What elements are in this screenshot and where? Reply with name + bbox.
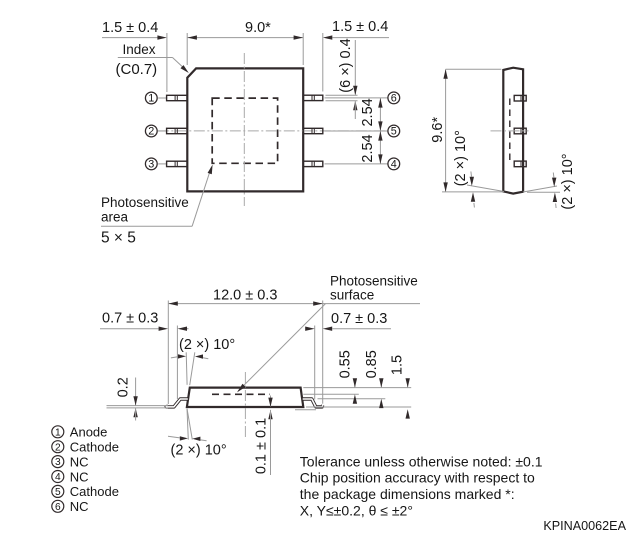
- svg-text:NC: NC: [70, 454, 89, 469]
- chip dashed line: [212, 393, 270, 395]
- svg-text:Cathode: Cathode: [70, 484, 119, 499]
- package body side view: [503, 68, 523, 194]
- svg-text:9.6*: 9.6*: [430, 117, 446, 143]
- pin 6: [325, 97, 388, 99]
- dim 0.55: [354, 380, 356, 387]
- svg-text:1.5 ± 0.4: 1.5 ± 0.4: [102, 20, 158, 36]
- pin 1: [158, 97, 166, 99]
- svg-text:3: 3: [148, 158, 154, 170]
- svg-text:5 × 5: 5 × 5: [101, 230, 136, 247]
- horizontal center line: [158, 130, 388, 132]
- svg-text:2.54: 2.54: [360, 134, 376, 162]
- side view dashed chip line: [509, 99, 511, 165]
- side view pin tab 3: [514, 161, 526, 167]
- photosensitive area dashed square: [212, 98, 277, 163]
- circled pin number 6: [388, 92, 400, 104]
- right side extension lines: [303, 387, 411, 389]
- dim 0.2: [107, 405, 169, 407]
- pin list 1 Anode: [52, 426, 64, 438]
- left lead: [166, 399, 188, 407]
- pin list 6 NC: [52, 500, 64, 512]
- svg-text:surface: surface: [330, 288, 374, 303]
- dim 1.5: [407, 380, 409, 387]
- svg-text:Photosensitive: Photosensitive: [330, 274, 418, 289]
- svg-text:5: 5: [391, 126, 397, 138]
- vertical center line: [243, 53, 245, 206]
- svg-text:1.5: 1.5: [390, 355, 406, 375]
- svg-text:3: 3: [55, 457, 61, 468]
- dim 0.1±0.1: [270, 396, 272, 407]
- svg-text:(2 ×) 10°: (2 ×) 10°: [179, 337, 235, 353]
- circled pin number 5: [388, 125, 400, 137]
- svg-text:0.85: 0.85: [364, 350, 380, 378]
- extension lines verticals: [167, 301, 169, 405]
- circled pin number 1: [145, 92, 157, 104]
- svg-text:(6 ×) 0.4: (6 ×) 0.4: [338, 38, 354, 92]
- svg-text:0.7 ± 0.3: 0.7 ± 0.3: [102, 311, 158, 327]
- svg-text:Tolerance unless otherwise not: Tolerance unless otherwise noted: ±0.1: [300, 453, 543, 469]
- svg-text:(2 ×) 10°: (2 ×) 10°: [560, 153, 576, 209]
- svg-text:Photosensitive: Photosensitive: [101, 195, 189, 210]
- circled pin number 2: [145, 125, 157, 137]
- svg-text:1.5 ± 0.4: 1.5 ± 0.4: [332, 19, 388, 35]
- pin 5: [325, 130, 388, 132]
- circled pin number 3: [145, 158, 157, 170]
- svg-text:0.1 ± 0.1: 0.1 ± 0.1: [254, 418, 270, 474]
- side view horizontal center line: [491, 130, 529, 132]
- side view pin tab 1: [514, 95, 526, 101]
- svg-text:NC: NC: [70, 499, 89, 514]
- svg-text:4: 4: [55, 472, 61, 483]
- dim 2.54 x2: [379, 98, 381, 164]
- pin list 3 NC: [52, 456, 64, 468]
- svg-text:5: 5: [55, 487, 61, 498]
- svg-text:2: 2: [55, 442, 61, 453]
- package body top view: [187, 68, 303, 191]
- pin 2: [158, 130, 166, 132]
- pin list 5 Cathode: [52, 485, 64, 497]
- svg-text:Anode: Anode: [70, 425, 108, 440]
- svg-text:area: area: [101, 210, 129, 225]
- angle (2x)10 top: [185, 352, 188, 385]
- svg-text:2.54: 2.54: [360, 98, 376, 126]
- svg-text:NC: NC: [70, 469, 89, 484]
- package body bottom/profile view: [187, 388, 303, 407]
- svg-text:6: 6: [391, 92, 397, 104]
- dim 9.6*: [445, 69, 447, 192]
- pin list 4 NC: [52, 471, 64, 483]
- dim 0.85: [380, 380, 382, 387]
- svg-text:12.0 ± 0.3: 12.0 ± 0.3: [213, 288, 277, 304]
- angle 10 deg left: [467, 185, 504, 192]
- vertical center line: [244, 372, 246, 438]
- pin 4: [325, 163, 388, 165]
- svg-text:the package dimensions marked: the package dimensions marked *:: [300, 486, 515, 502]
- svg-text:0.2: 0.2: [116, 377, 132, 397]
- svg-text:Cathode: Cathode: [70, 440, 119, 455]
- right lead: [303, 399, 323, 407]
- svg-text:Index: Index: [123, 42, 156, 57]
- svg-text:2: 2: [148, 126, 154, 138]
- svg-text:KPINA0062EA: KPINA0062EA: [543, 519, 626, 533]
- angle 10 deg right: [523, 186, 557, 192]
- pin list 2 Cathode: [52, 441, 64, 453]
- svg-text:6: 6: [55, 502, 61, 513]
- svg-text:9.0*: 9.0*: [245, 20, 271, 36]
- svg-text:(2 ×) 10°: (2 ×) 10°: [453, 130, 469, 186]
- svg-text:0.55: 0.55: [338, 350, 354, 378]
- svg-text:0.7 ± 0.3: 0.7 ± 0.3: [331, 311, 387, 327]
- svg-text:Chip position accuracy with re: Chip position accuracy with respect to: [300, 470, 535, 486]
- angle (2x)10 bottom: [187, 409, 188, 440]
- svg-text:(C0.7): (C0.7): [116, 61, 158, 78]
- circled pin number 4: [388, 158, 400, 170]
- svg-text:X, Y≤±0.2, θ ≤ ±2°: X, Y≤±0.2, θ ≤ ±2°: [300, 502, 413, 518]
- svg-text:4: 4: [391, 158, 397, 170]
- svg-text:(2 ×) 10°: (2 ×) 10°: [171, 443, 227, 459]
- pin 3: [158, 163, 166, 165]
- svg-text:1: 1: [55, 427, 61, 438]
- svg-text:1: 1: [148, 93, 154, 105]
- side view pin tab 2: [514, 128, 526, 134]
